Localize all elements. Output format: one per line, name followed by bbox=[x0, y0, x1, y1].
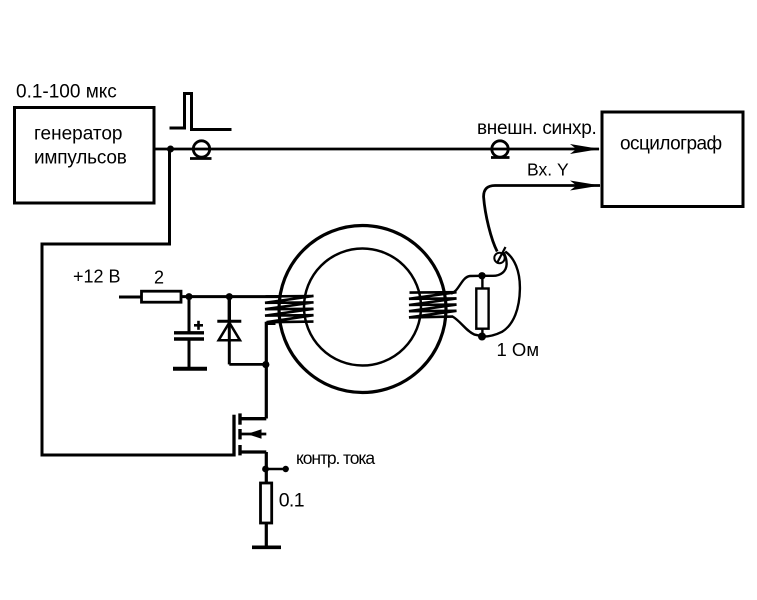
diode VD1 bbox=[228, 297, 231, 321]
wire +12V lead bbox=[119, 296, 141, 299]
wire test point stub bbox=[266, 468, 285, 471]
svg-text:1 Ом: 1 Ом bbox=[497, 339, 540, 360]
svg-text:осцилограф: осцилограф bbox=[620, 134, 722, 155]
wire winding to resistor bottom bbox=[453, 317, 483, 337]
current sense resistor R 0.1 bbox=[261, 483, 272, 523]
svg-text:+12 В: +12 В bbox=[73, 267, 121, 287]
transistor drain lead bbox=[239, 417, 266, 420]
node контр. тока test point bbox=[283, 466, 289, 472]
node diode anode junction bbox=[262, 361, 269, 368]
svg-text:внешн. синхр.: внешн. синхр. bbox=[477, 118, 597, 139]
wire Вх. Y to oscilloscope bbox=[484, 186, 600, 252]
node resistor bottom bbox=[478, 333, 486, 341]
svg-text:генератор: генератор bbox=[34, 124, 122, 145]
secondary winding (right) bbox=[409, 292, 457, 317]
wire winding to resistor top bbox=[451, 276, 482, 294]
connector symbol near generator bbox=[193, 141, 209, 157]
resistor R2 bbox=[142, 291, 182, 302]
wire +12V rail bbox=[181, 295, 280, 298]
wire source vertical bbox=[265, 452, 268, 483]
toroidal core inner circle bbox=[304, 249, 421, 366]
generator box bbox=[15, 108, 155, 204]
oscilloscope box bbox=[602, 112, 743, 207]
pulse waveform symbol bbox=[170, 94, 232, 130]
transistor channel segments bbox=[238, 413, 241, 424]
ground source resistor bbox=[252, 545, 281, 549]
svg-text:импульсов: импульсов bbox=[34, 148, 127, 169]
wire resistor top to probe tip bbox=[482, 252, 507, 275]
node resistor top bbox=[478, 272, 485, 279]
svg-text:контр. тока: контр. тока bbox=[296, 448, 375, 468]
toroidal core outer circle bbox=[279, 226, 446, 393]
wire probe ground loop bbox=[483, 252, 520, 337]
probe tip hook stroke bbox=[497, 247, 506, 264]
measuring resistor R 1 Ом bbox=[476, 289, 488, 329]
primary winding (left) bbox=[265, 296, 314, 322]
svg-text:2: 2 bbox=[154, 268, 164, 288]
capacitor C1 bbox=[188, 297, 191, 332]
probe tip connector circle bbox=[494, 253, 504, 263]
arrow into oscilloscope Y input bbox=[570, 181, 601, 191]
wire diode anode to drain line bbox=[229, 363, 266, 366]
transistor Q1 MOSFET gate bar bbox=[232, 415, 235, 457]
node rail diode junction bbox=[226, 293, 233, 300]
node source junction bbox=[262, 466, 269, 473]
connector symbol внешн. синхр. bbox=[492, 141, 508, 157]
node junction at generator output bbox=[167, 146, 174, 153]
arrow into oscilloscope sync input bbox=[570, 144, 600, 154]
svg-text:0.1: 0.1 bbox=[279, 490, 304, 512]
transistor body lead with arrow bbox=[241, 433, 266, 436]
wire resistor to ground bbox=[265, 523, 268, 546]
transistor source lead bbox=[239, 450, 266, 453]
ground capacitor bbox=[173, 367, 207, 371]
feedback wire from generator to gate bbox=[42, 150, 234, 455]
wire sync line bbox=[155, 148, 599, 151]
svg-text:0.1-100 мкс: 0.1-100 мкс bbox=[16, 82, 117, 103]
node rail capacitor junction bbox=[186, 293, 193, 300]
wire drain vertical bbox=[265, 364, 268, 419]
wire winding bottom terminal bbox=[266, 323, 275, 364]
capacitor plus sign bbox=[194, 324, 203, 327]
svg-text:Вх. Y: Вх. Y bbox=[527, 160, 569, 180]
